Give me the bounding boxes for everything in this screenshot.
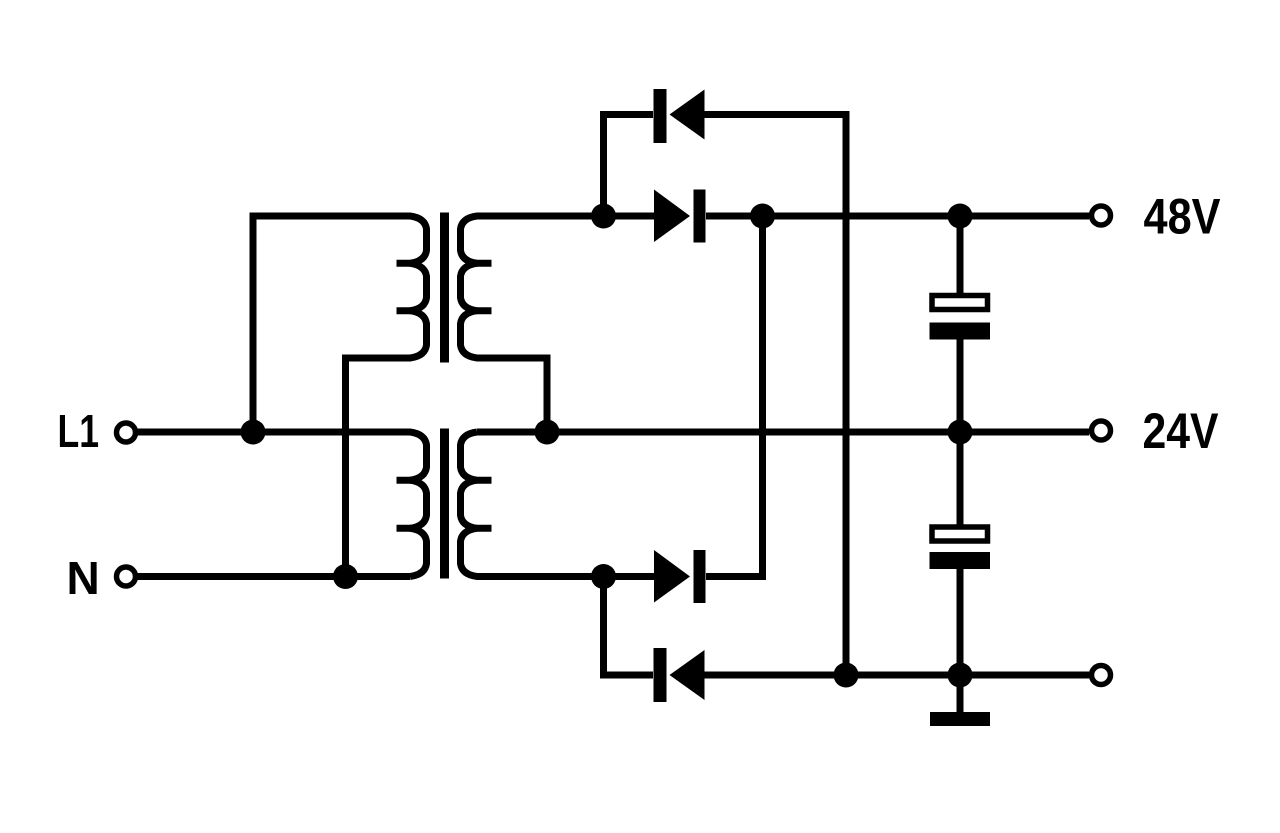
diode D3 [654,550,706,603]
wire 24V line from T2 secondary top to 24V terminal [477,429,1089,436]
transformer T1 primary winding turn stubs [397,263,412,310]
terminal L1 [117,423,136,442]
junction node 0V bus [834,663,859,688]
transformer T1 primary winding [253,216,427,577]
svg-text:48V: 48V [1144,189,1222,245]
wire capacitor C1 to 24V line [957,339,964,432]
junction node D2-D3 cathode [750,204,775,229]
svg-text:L1: L1 [58,405,100,457]
terminal N [117,567,136,586]
junction node N tap [333,564,358,589]
svg-text:24V: 24V [1143,403,1220,459]
junction node L1 tap [241,420,266,445]
transformer T2 primary winding [137,432,427,577]
wire ground stub [957,675,964,713]
wire 48V node to capacitor C1 [957,216,964,294]
capacitor C1 positive plate [932,296,988,310]
transformer T1 secondary winding [461,216,655,432]
ground symbol bar [930,712,990,726]
transformer T2 core [440,429,449,579]
transformer T2 secondary winding turn stubs [476,480,492,528]
junction node center tap 24V [535,420,560,445]
diode D2 [654,190,706,243]
junction node T1 secondary top [591,204,616,229]
wire top rectifier loop left riser [604,115,654,217]
terminal 24V [1092,421,1111,440]
transformer T1 core [440,213,449,363]
wire capacitor C2 to 0V line [957,568,964,675]
wire D4 anode to 0V terminal [704,672,1089,679]
wire 24V line to capacitor C2 [957,432,964,526]
transformer T1 secondary winding turn stubs [476,263,492,310]
junction node T2 secondary bottom [591,564,616,589]
wire D2 cathode to 48V terminal [706,213,1089,220]
terminal 0V [1092,666,1111,685]
svg-text:N: N [67,552,100,604]
transformer T2 secondary winding [461,432,655,577]
capacitor C1 negative plate [930,323,991,340]
terminal 48V [1092,206,1111,225]
junction node C1 top [948,204,973,229]
diode D1 [654,89,705,143]
wire lower rectifier loop [604,577,654,676]
diode D4 [654,648,705,702]
wire N input to T2 primary bottom [137,573,410,580]
transformer T2 primary winding turn stubs [397,480,412,528]
capacitor C2 positive plate [932,527,988,541]
capacitor C2 negative plate [930,552,991,569]
wire D1 cathode loop to output bus riser [704,115,846,676]
junction node C1-C2 24V [948,420,973,445]
junction node C2 bottom [948,663,973,688]
wire D3 cathode riser to 48V node [706,216,763,577]
